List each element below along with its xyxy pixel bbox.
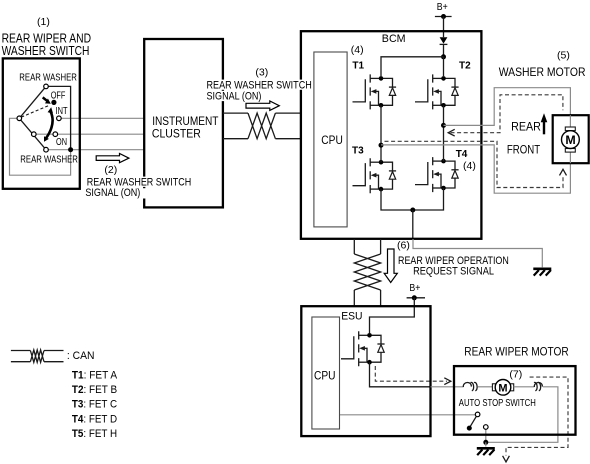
chevron front indicator	[560, 169, 567, 175]
ground BCM	[533, 269, 551, 276]
svg-text:M: M	[498, 382, 507, 394]
wire top rail	[381, 57, 444, 76]
svg-text:AUTO STOP SWITCH: AUTO STOP SWITCH	[459, 398, 536, 409]
wire H-bridge to ground	[412, 210, 414, 239]
auto stop contact from ESU	[475, 412, 480, 417]
svg-text:B+: B+	[437, 2, 448, 13]
label (6) arrow	[384, 249, 397, 283]
coil L2	[534, 382, 542, 387]
svg-text:T4: T4	[456, 149, 468, 160]
svg-text:B+: B+	[409, 283, 420, 294]
CAN wire low	[223, 138, 301, 140]
wire bottom rail	[381, 188, 444, 210]
svg-text:T3: T3	[352, 146, 364, 157]
svg-text:SIGNAL (ON): SIGNAL (ON)	[85, 187, 140, 199]
svg-text:: CAN: : CAN	[67, 350, 95, 362]
svg-text:(4): (4)	[351, 44, 364, 56]
ON contact	[53, 132, 58, 137]
OFF select arrow	[43, 97, 47, 100]
label (3) arrow	[246, 101, 279, 110]
wire H-bridge ground link	[413, 239, 542, 267]
chevron wiper return	[503, 456, 510, 462]
switch lever to rear washer	[19, 118, 46, 149]
transistor T3	[353, 158, 397, 193]
junction dot top rail	[441, 54, 446, 59]
washer motor brushes	[565, 127, 575, 131]
svg-text:T1: T1	[352, 60, 364, 71]
wire B+ into ESU	[370, 298, 415, 333]
wire motor return	[486, 387, 558, 443]
wire front drive to washer motor	[381, 145, 570, 193]
wire T1 source to T3 drain	[380, 105, 382, 162]
ground rear wiper	[477, 448, 495, 455]
transistor T5	[341, 331, 385, 366]
chevron wiper signal	[444, 378, 451, 385]
svg-text:CPU: CPU	[314, 369, 336, 383]
svg-text:(5): (5)	[557, 50, 570, 62]
coil L1	[463, 382, 471, 387]
white halo for signal text 3 line 2	[206, 91, 267, 101]
svg-text:WASHER SWITCH: WASHER SWITCH	[2, 44, 90, 58]
wire top rear washer contact link	[46, 86, 71, 149]
wire coil to motor	[478, 386, 492, 388]
svg-text:T1: FET A: T1: FET A	[72, 369, 118, 381]
wire T2 drain feed	[443, 57, 445, 76]
junction dot rear wire	[441, 123, 446, 128]
svg-text:INT: INT	[56, 106, 68, 117]
wire through washer motor	[569, 115, 571, 163]
rear direction bold arrow	[543, 121, 545, 135]
auto stop lever	[469, 417, 476, 429]
rear wiper motor box	[454, 366, 576, 435]
wire B+ into BCM	[443, 17, 445, 38]
washer motor box	[553, 115, 589, 163]
svg-text:REQUEST SIGNAL: REQUEST SIGNAL	[413, 266, 494, 278]
dashed wiper signal indicator	[375, 366, 447, 381]
svg-text:CLUSTER: CLUSTER	[152, 129, 201, 141]
junction dot bottom rail	[410, 208, 415, 213]
B+ terminal ESU	[407, 297, 425, 299]
junction dot rear washer line	[68, 147, 73, 152]
switch arm to top contact	[19, 86, 46, 118]
wire motor to coil2	[514, 386, 535, 388]
transistor T4	[415, 157, 459, 192]
label (2) arrow	[96, 154, 129, 163]
CAN twist vertical	[354, 254, 380, 290]
legend CAN wires	[11, 351, 64, 362]
svg-text:T5: FET H: T5: FET H	[72, 428, 117, 440]
CPU box BCM	[314, 52, 347, 227]
wire T2 source to T4 drain	[443, 105, 445, 161]
svg-text:REAR WIPER MOTOR: REAR WIPER MOTOR	[464, 345, 569, 359]
svg-text:M: M	[565, 133, 575, 147]
CPU box ESU	[312, 317, 340, 429]
diode D1	[440, 37, 448, 43]
switch box	[3, 58, 80, 188]
svg-text:T3: FET C: T3: FET C	[72, 399, 117, 411]
svg-text:SIGNAL (ON): SIGNAL (ON)	[207, 90, 262, 102]
lever travel curved arrow	[46, 111, 53, 139]
CAN wire high	[223, 112, 301, 114]
svg-text:REAR WASHER: REAR WASHER	[19, 72, 77, 83]
svg-text:BCM: BCM	[382, 33, 406, 45]
svg-text:ESU: ESU	[341, 310, 362, 322]
wire motor drive into box	[431, 386, 464, 388]
svg-text:(2): (2)	[104, 164, 117, 176]
svg-text:REAR WASHER: REAR WASHER	[20, 155, 78, 166]
svg-text:(6): (6)	[397, 240, 410, 252]
CAN twist	[248, 113, 275, 139]
wire ON output to cluster	[34, 133, 144, 135]
switch dashed arm to OFF	[21, 105, 50, 117]
ESU box	[301, 306, 430, 436]
svg-text:FRONT: FRONT	[507, 142, 541, 156]
white halo for signal text (3)	[206, 80, 313, 90]
dashed front direction indicator	[385, 141, 564, 187]
dashed rear direction indicator	[451, 95, 563, 133]
white halo for signal text 2 line 2	[85, 188, 147, 198]
svg-text:REAR: REAR	[511, 120, 541, 134]
svg-text:T4: FET D: T4: FET D	[72, 413, 117, 425]
BCM box	[301, 31, 482, 239]
svg-text:OFF: OFF	[51, 90, 66, 101]
pivot contact	[17, 116, 22, 121]
OFF position dot	[51, 100, 56, 105]
CAN wire right	[380, 239, 382, 306]
wire auto stop sense	[340, 414, 476, 416]
legend CAN twist	[30, 350, 44, 362]
wire dot to ground	[485, 442, 487, 446]
svg-text:T2: FET B: T2: FET B	[72, 384, 117, 396]
transistor T1	[353, 74, 397, 109]
wire rear washer output to cluster	[46, 149, 144, 151]
wire pivot common loop	[10, 118, 71, 175]
svg-text:INSTRUMENT: INSTRUMENT	[152, 116, 218, 128]
chevron rear indicator	[448, 129, 455, 136]
rear wiper motor brushes	[492, 384, 495, 391]
svg-text:(1): (1)	[37, 16, 50, 28]
wire rear drive to washer motor	[444, 88, 571, 128]
wire T5 source to motor drive	[370, 362, 431, 387]
svg-text:WASHER MOTOR: WASHER MOTOR	[499, 65, 586, 79]
top rear washer contact	[44, 84, 49, 89]
instrument cluster box	[144, 39, 223, 207]
svg-text:CPU: CPU	[321, 133, 343, 147]
transistor T2	[415, 74, 459, 109]
svg-text:(4): (4)	[463, 160, 476, 172]
svg-text:(7): (7)	[509, 368, 522, 380]
svg-text:T2: T2	[459, 60, 471, 71]
CAN wire left	[353, 239, 355, 306]
INT contact	[57, 116, 62, 121]
washer motor M circle	[562, 131, 580, 149]
junction dot front wire	[379, 143, 384, 148]
wire INT output to cluster	[59, 117, 144, 119]
wire diode to top rail	[443, 44, 445, 56]
svg-text:(3): (3)	[255, 66, 268, 78]
rear wiper motor M circle	[495, 380, 511, 396]
junction dot motor return	[483, 440, 488, 445]
svg-text:ON: ON	[56, 137, 67, 148]
white halo for signal text (2)	[86, 177, 193, 187]
dashed wiper return indicator	[506, 377, 568, 455]
lever crossing contact	[32, 132, 37, 137]
bottom rear washer contact	[44, 147, 49, 152]
B+ terminal BCM	[435, 16, 452, 18]
auto stop contact to ground	[484, 425, 489, 430]
